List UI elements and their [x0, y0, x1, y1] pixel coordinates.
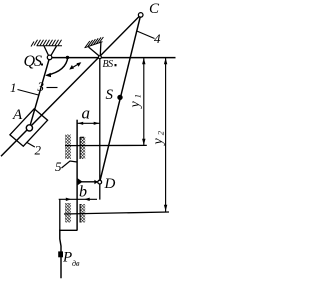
dimension y1 vertical — [143, 58, 145, 146]
svg-text:D: D — [104, 176, 116, 192]
svg-text:C: C — [149, 1, 160, 17]
pivot pin Q — [47, 55, 52, 60]
dimension y2 vertical — [165, 58, 167, 212]
guide hatch lower left — [65, 203, 71, 223]
arm connecting rod to pin D — [77, 181, 98, 183]
horizontal reference line at y1 level — [65, 144, 147, 146]
svg-text:5: 5 — [55, 159, 62, 174]
pivot pin B — [98, 56, 101, 59]
link 1 crank Q-A — [29, 57, 49, 128]
svg-text:дв: дв — [72, 259, 80, 268]
svg-text:BS: BS — [103, 59, 114, 70]
svg-text:A: A — [12, 107, 23, 123]
horizontal reference line at y2 level — [64, 212, 169, 214]
slider 2 block on link 3 — [10, 109, 48, 146]
pin C — [138, 13, 143, 18]
support triangle at Q — [44, 46, 57, 56]
svg-text:2: 2 — [35, 143, 42, 158]
support triangle at B — [89, 42, 101, 56]
dimension a — [77, 122, 100, 124]
guide hatch upper right — [80, 137, 85, 159]
dimension b — [59, 198, 97, 200]
svg-text:a: a — [82, 103, 91, 122]
wire top reference line QB extended right — [50, 57, 176, 59]
connector block on force line — [58, 251, 63, 257]
bracket and force line at bottom — [59, 199, 61, 230]
rotation arc at Q — [47, 57, 68, 76]
guide hatch upper left — [65, 135, 71, 160]
link 3 slotted lever through A,B,C — [1, 15, 141, 156]
svg-text:QS: QS — [24, 53, 43, 70]
dot on line QB — [66, 56, 69, 59]
ground hatch above pivot Q — [31, 40, 62, 47]
svg-text:P: P — [62, 250, 72, 266]
guide hatch lower right — [80, 204, 85, 223]
vertical line through D from B — [99, 59, 101, 200]
center of mass dot S on link 4 — [117, 95, 122, 100]
link 4 connecting rod C-D — [100, 15, 141, 182]
svg-text:1: 1 — [10, 80, 17, 95]
ground hatch above pivot B (tilted) — [85, 37, 104, 48]
svg-text:S: S — [106, 87, 114, 103]
svg-text:3: 3 — [37, 79, 45, 94]
svg-text:4: 4 — [154, 31, 161, 46]
rod of slider 5 — [76, 120, 78, 231]
pin A — [26, 125, 32, 131]
svg-text:b: b — [79, 184, 87, 201]
pin D — [98, 180, 102, 184]
double slide arrow — [71, 63, 81, 69]
